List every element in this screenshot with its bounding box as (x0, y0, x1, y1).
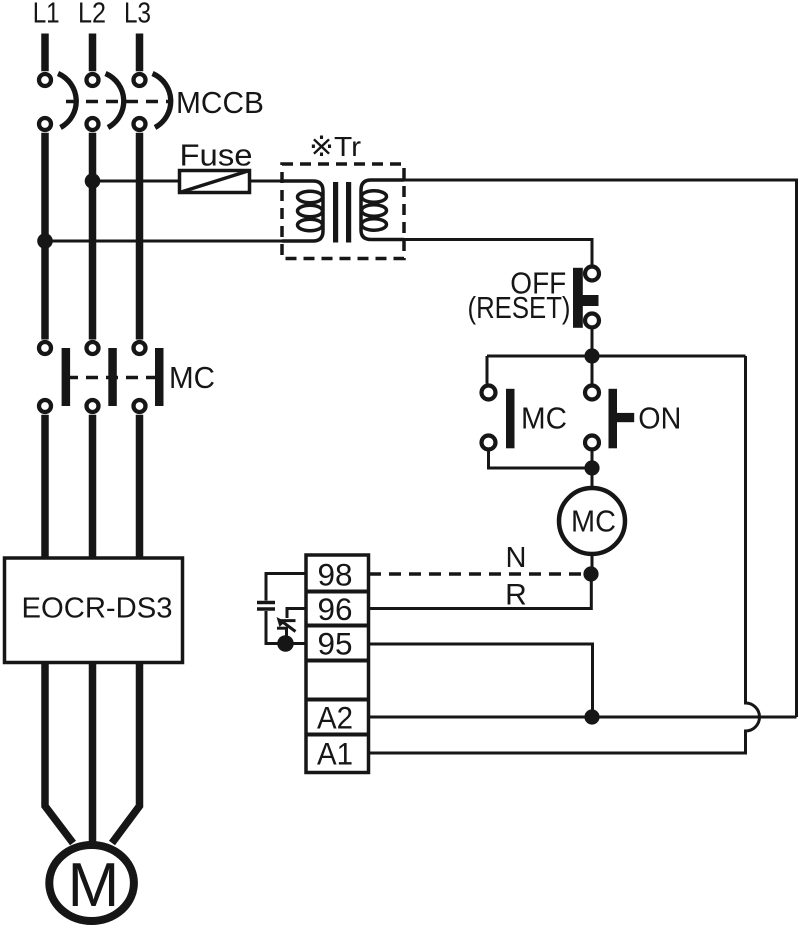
wire secondary top to right rail (404, 180, 797, 717)
contact MC main pole 1 (39, 342, 70, 412)
contact MC main linkage dashed (66, 376, 157, 379)
wire secondary bottom to OFF button (404, 240, 592, 265)
wire center down to ON (591, 356, 594, 384)
svg-text:R: R (505, 579, 527, 612)
node junction on L2 (85, 173, 101, 189)
svg-text:A1: A1 (317, 737, 353, 772)
svg-text:MC: MC (571, 503, 616, 538)
svg-text:96: 96 (318, 592, 353, 627)
wire L2 phase top (89, 34, 97, 72)
breaker MCCB pole 2 (87, 74, 99, 86)
wire ON bottom to junction (591, 452, 594, 487)
node junction on L1 (37, 233, 53, 249)
node junction above MC coil (584, 460, 599, 475)
transformer Tr dashed box (282, 164, 404, 259)
node junction below OFF (584, 348, 599, 363)
capacitor C (257, 603, 275, 610)
svg-text:98: 98 (318, 558, 353, 593)
transformer Tr secondary winding (361, 180, 404, 240)
wire 96 to arrester (287, 609, 306, 619)
svg-text:EOCR-DS3: EOCR-DS3 (22, 593, 173, 625)
wire L2 tap to fuse (93, 180, 283, 183)
transformer Tr core (333, 182, 351, 243)
wire OFF to junction (591, 330, 594, 357)
contact MC main pole 3 (134, 342, 164, 412)
svg-text:M: M (68, 851, 120, 920)
svg-text:※Tr: ※Tr (309, 131, 361, 162)
arrester (discharge gap) (277, 621, 296, 638)
terminal strip outline (306, 555, 369, 773)
wire A1 to ON branch with hop (369, 356, 760, 753)
wire L2 to motor (89, 660, 97, 845)
wire capacitor to 95 node (266, 611, 306, 644)
svg-text:MC: MC (521, 401, 567, 436)
svg-text:MC: MC (169, 360, 215, 395)
wire L3 phase middle (136, 133, 144, 340)
node junction N (583, 566, 598, 581)
svg-text:A2: A2 (317, 701, 353, 736)
pushbutton OFF(RESET) NC (573, 267, 599, 328)
wire left branch down to MC aux (486, 356, 489, 384)
svg-text:ON: ON (638, 401, 681, 436)
terminal strip dividers (306, 592, 369, 735)
pushbutton ON NO (585, 386, 634, 450)
svg-text:95: 95 (318, 627, 353, 662)
contact MC auxiliary NO (482, 386, 515, 450)
svg-text:(RESET): (RESET) (468, 290, 571, 325)
breaker MCCB pole 3 (134, 74, 146, 86)
svg-text:L3: L3 (124, 0, 151, 30)
wire L1 to motor (45, 660, 73, 843)
wire L2 phase middle (89, 133, 97, 340)
breaker MCCB pole 1 (39, 74, 51, 86)
wire MC aux bottom to junction (489, 452, 593, 469)
wire R from 96 (369, 574, 591, 609)
svg-text:L2: L2 (78, 0, 106, 30)
svg-text:N: N (506, 542, 527, 574)
wire L1 phase lower (41, 415, 49, 561)
svg-text:L1: L1 (33, 0, 60, 30)
fuse F1 (180, 171, 250, 193)
wire L3 to motor (112, 660, 140, 843)
contact MC main pole 2 (87, 342, 117, 412)
wire N dashed (369, 572, 583, 575)
transformer Tr primary winding (282, 181, 323, 241)
wire L1 tap to transformer (45, 240, 282, 243)
node junction on A2 wire (584, 709, 599, 724)
wire A2 row (369, 716, 797, 719)
svg-text:Fuse: Fuse (180, 138, 253, 173)
wire coil bottom to N node (591, 554, 594, 574)
svg-text:MCCB: MCCB (176, 85, 264, 120)
wire junction horizontal branch (487, 355, 746, 358)
wire L2 phase lower (89, 415, 97, 561)
wire L3 phase top (136, 34, 144, 72)
breaker MCCB linkage dashed (66, 100, 170, 103)
wire L1 phase top (41, 34, 49, 72)
wire 95 to A2 row (369, 644, 593, 717)
coil MC contactor (559, 488, 625, 554)
node junction at 95 (277, 635, 294, 652)
wire L1 phase middle (41, 133, 49, 340)
relay EOCR-DS3 box (5, 558, 183, 663)
motor M1 (49, 845, 134, 921)
wire 98 to capacitor (266, 574, 306, 601)
wire L3 phase lower (136, 415, 144, 561)
